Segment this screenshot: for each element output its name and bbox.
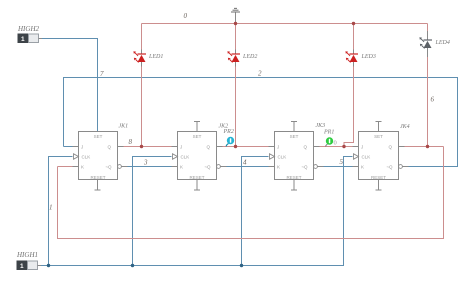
svg-text:SET: SET xyxy=(193,134,202,139)
ground xyxy=(231,8,240,23)
svg-text:3: 3 xyxy=(143,159,148,167)
svg-text:CLK: CLK xyxy=(278,155,287,160)
svg-text:K: K xyxy=(277,165,280,170)
svg-text:K: K xyxy=(361,165,364,170)
svg-text:Q: Q xyxy=(388,145,392,150)
LED LED4 anode wire xyxy=(427,24,429,32)
svg-text:JK3: JK3 xyxy=(316,123,326,129)
svg-text:K: K xyxy=(180,165,183,170)
svg-text:J: J xyxy=(361,145,363,150)
svg-text:Q: Q xyxy=(206,145,210,150)
svg-text:4: 4 xyxy=(243,159,247,167)
flip-flop JK1 xyxy=(73,124,129,191)
LED LED3 cathode wire with jog xyxy=(344,67,354,147)
svg-text:RESET: RESET xyxy=(189,175,204,180)
LED LED3 xyxy=(345,50,375,67)
svg-text:LED4: LED4 xyxy=(435,39,450,46)
junction on clock bus at x=132.5 xyxy=(131,264,134,267)
wire net 0 top ground bus xyxy=(142,23,428,25)
svg-text:K: K xyxy=(81,165,84,170)
svg-text:JK1: JK1 xyxy=(119,124,129,130)
wire Q4 out to feedback corner xyxy=(405,146,444,148)
wire CLK2 riser xyxy=(133,157,172,266)
svg-text:0: 0 xyxy=(184,12,188,20)
svg-text:LED1: LED1 xyxy=(148,54,163,60)
svg-text:Q: Q xyxy=(107,145,111,150)
svg-text:JK4: JK4 xyxy=(400,123,410,130)
LED LED2 xyxy=(227,50,257,67)
probe PR2 xyxy=(223,129,235,147)
svg-text:SET: SET xyxy=(290,134,299,139)
svg-text:SET: SET xyxy=(374,134,383,139)
junction Q3/LED3 xyxy=(342,145,345,148)
wire K1 entry xyxy=(58,166,73,168)
svg-text:J: J xyxy=(180,145,182,150)
wire CLK3 riser xyxy=(242,157,269,266)
LED LED3 anode wire xyxy=(353,24,355,50)
wire HIGH2 to SET of JK1 xyxy=(42,39,98,132)
svg-text:~Q: ~Q xyxy=(204,165,211,170)
LED LED1 anode wire xyxy=(141,24,143,50)
wire net 4 (~Q2 to K3) xyxy=(227,166,269,168)
svg-text:HIGH1: HIGH1 xyxy=(16,251,38,259)
svg-text:5: 5 xyxy=(340,158,344,166)
svg-text:RESET: RESET xyxy=(286,175,301,180)
svg-text:PR1: PR1 xyxy=(323,130,334,136)
junction ground bus / LED2 xyxy=(234,22,237,25)
svg-text:1: 1 xyxy=(49,204,53,212)
svg-text:CLK: CLK xyxy=(362,155,371,160)
wire Q2 to J3 xyxy=(223,146,269,148)
svg-text:SET: SET xyxy=(94,134,103,139)
svg-text:8: 8 xyxy=(129,138,133,146)
wire J1 entry xyxy=(64,146,73,148)
svg-text:J: J xyxy=(277,145,279,150)
LED LED4 cathode wire xyxy=(427,53,429,58)
junction on clock bus at x=241.5 xyxy=(240,264,243,267)
svg-text:1: 1 xyxy=(20,263,24,270)
junction on clock bus at x=48.5 xyxy=(47,264,50,267)
svg-text:1: 1 xyxy=(21,36,25,43)
svg-text:Q: Q xyxy=(303,145,307,150)
wire net 3 (~Q1 to K2) xyxy=(128,166,172,168)
svg-text:0: 0 xyxy=(334,140,337,147)
logic source HIGH1 xyxy=(16,251,41,270)
logic source HIGH2 xyxy=(17,25,42,43)
svg-text:2: 2 xyxy=(258,70,262,78)
svg-text:J: J xyxy=(81,145,83,150)
svg-text:PR2: PR2 xyxy=(223,129,234,135)
svg-text:~Q: ~Q xyxy=(386,165,393,170)
wire CLK1 riser xyxy=(49,157,73,266)
flip-flop JK3 xyxy=(269,122,326,191)
flip-flop JK2 xyxy=(172,122,229,191)
LED LED1 xyxy=(133,50,163,67)
probe PR1 xyxy=(323,130,337,147)
svg-text:~Q: ~Q xyxy=(105,165,112,170)
wire net 0 feedback (Q of JK4 to K of JK1) xyxy=(58,147,444,239)
svg-text:CLK: CLK xyxy=(82,155,91,160)
svg-text:LED2: LED2 xyxy=(242,54,257,60)
svg-text:LED3: LED3 xyxy=(361,54,376,60)
junction Q1/LED1 xyxy=(140,145,143,148)
svg-text:HIGH2: HIGH2 xyxy=(17,25,39,33)
LED LED4 (off, gray) xyxy=(419,36,449,53)
junction ground bus / LED3 xyxy=(352,22,355,25)
svg-text:RESET: RESET xyxy=(90,175,105,180)
wire net 5 (~Q3 to K4) xyxy=(324,166,353,168)
svg-text:CLK: CLK xyxy=(181,155,190,160)
junction Q4/LED4 xyxy=(426,145,429,148)
wire net 2 (~Q of JK4 feedback to J of JK1) xyxy=(64,78,458,167)
wire net 1 clock bus from HIGH1 xyxy=(41,157,353,266)
svg-text:7: 7 xyxy=(100,70,104,78)
wire Q3 to J4 xyxy=(320,146,353,148)
svg-text:6: 6 xyxy=(431,96,435,104)
LED LED1 cathode wire xyxy=(141,67,143,147)
wire net 8 (Q1 to J2) xyxy=(124,146,172,148)
junction Q2/LED2 xyxy=(234,145,237,148)
svg-text:RESET: RESET xyxy=(371,175,386,180)
svg-text:~Q: ~Q xyxy=(301,165,308,170)
LED LED2 cathode wire xyxy=(235,67,237,147)
flip-flop JK4 xyxy=(353,122,410,191)
LED LED2 anode wire xyxy=(235,24,237,50)
